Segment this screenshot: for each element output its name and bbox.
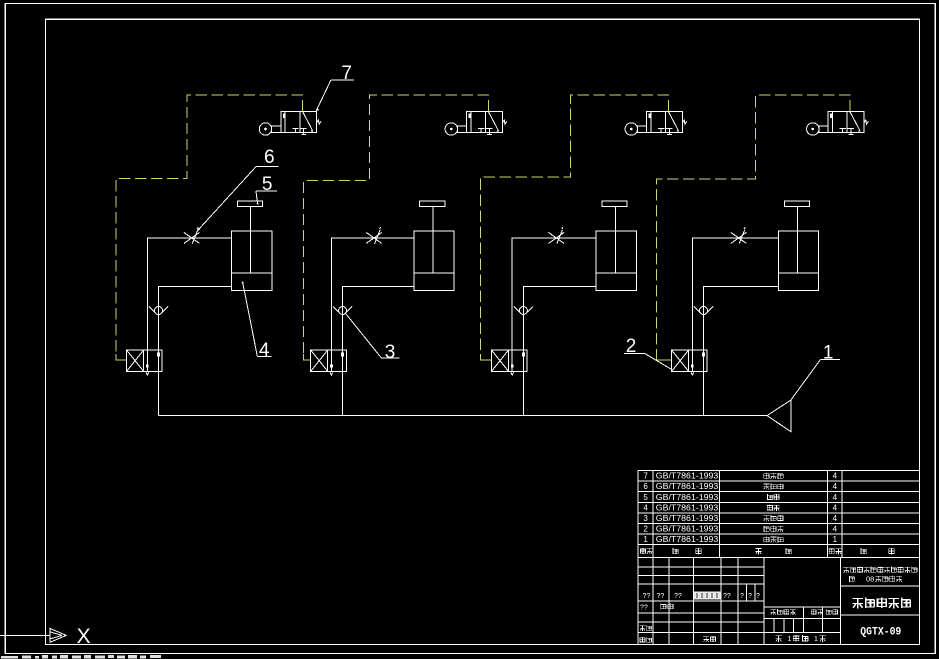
wire: valve 2.2 down to air supply manifold — [342, 371, 344, 415]
limit valve 7.2 (roller-operated 3/2) — [445, 111, 507, 135]
label 2 (directional valve callout) — [624, 336, 672, 369]
check valve 3.2 — [333, 307, 352, 315]
wire: cylinder 4 lower port to check valve 3.4 to valve 2.4 — [704, 287, 779, 351]
wire: cylinder 1 lower port to check valve 3.1 to valve 2.1 — [159, 287, 232, 351]
svg-text:5: 5 — [262, 174, 273, 195]
title block texts (left signature area) — [640, 592, 760, 643]
svg-text:6: 6 — [643, 482, 648, 491]
stop block 5.2 on piston rod — [420, 201, 445, 206]
svg-text:1: 1 — [833, 535, 838, 544]
plot stamp remnants at sheet bottom edge — [1, 655, 161, 658]
limit valve 7.4 (roller-operated 3/2) — [807, 111, 869, 135]
directional valve 2.3 (pilot operated 3/2) — [492, 350, 528, 375]
X axis datum marker — [0, 625, 91, 648]
stop block 5.4 on piston rod — [784, 201, 809, 206]
drawing title: pneumatic schematic (5 chars) — [852, 597, 910, 608]
label 3 (check valve callout) — [346, 314, 400, 363]
svg-text:GB/T7861-1993: GB/T7861-1993 — [656, 535, 719, 544]
svg-text:1: 1 — [823, 342, 834, 363]
svg-text:??: ?? — [640, 605, 648, 612]
svg-text:GB/T7861-1993: GB/T7861-1993 — [656, 482, 719, 491]
svg-text:1: 1 — [643, 535, 648, 544]
parts list header row — [640, 548, 894, 555]
directional valve 2.4 (pilot operated 3/2) — [672, 350, 708, 375]
pilot line from limit valve 7.2 to valve 2.2 (dashed) — [304, 95, 489, 360]
wire: valve 2.3 supply port up to throttle and cylinder 3 upper port — [512, 238, 596, 350]
svg-text:7: 7 — [643, 472, 648, 481]
svg-text:??: ?? — [657, 593, 665, 600]
school name: Hunan Agricultural University Oriental Science &amp; Technology College, class 08 — [843, 567, 917, 584]
svg-text:4: 4 — [833, 493, 838, 502]
check valve 3.1 — [149, 307, 168, 315]
svg-text:08: 08 — [866, 575, 874, 584]
stop block 5.1 on piston rod — [237, 201, 262, 206]
check valve 3.4 — [694, 307, 713, 315]
label 5 (stop block callout) — [256, 174, 277, 205]
wire: valve 2.4 down to air supply manifold — [703, 371, 705, 415]
svg-text:??: ?? — [674, 593, 682, 600]
limit valve 7.3 (roller-operated 3/2) — [625, 111, 687, 135]
wire: cylinder 2 lower port to check valve 3.2 to valve 2.2 — [343, 287, 414, 351]
svg-text:1: 1 — [788, 636, 792, 643]
svg-text:??: ?? — [643, 593, 651, 600]
directional valve 2.2 (pilot operated 3/2) — [311, 350, 347, 375]
svg-text:?: ? — [740, 593, 744, 600]
svg-text:5: 5 — [643, 493, 648, 502]
svg-text:??: ?? — [723, 593, 731, 600]
throttle valve 6.4 — [731, 227, 747, 244]
drawing number QGTX-09 — [860, 627, 901, 639]
svg-text:X: X — [77, 625, 91, 648]
throttle valve 6.1 — [184, 227, 200, 244]
cylinder 4.3 — [596, 207, 636, 291]
pilot line from limit valve 7.3 to valve 2.3 (dashed) — [480, 95, 668, 360]
svg-text:?: ? — [748, 593, 752, 600]
stop block 5.3 on piston rod — [602, 201, 627, 206]
wire: valve 2.2 supply port up to throttle and cylinder 2 upper port — [331, 238, 413, 350]
wire: valve 2.3 down to air supply manifold — [522, 371, 524, 415]
svg-text:?: ? — [756, 593, 760, 600]
title block grid — [638, 558, 919, 645]
svg-text:4: 4 — [833, 482, 838, 491]
svg-text:GB/T7861-1993: GB/T7861-1993 — [656, 525, 719, 534]
svg-text:GB/T7861-1993: GB/T7861-1993 — [656, 514, 719, 523]
pilot line from limit valve 7.1 to valve 2.1 (dashed) — [116, 95, 303, 360]
wire: valve 2.1 down to air supply manifold — [158, 371, 160, 415]
directional valve 2.1 (pilot operated 3/2) — [127, 350, 163, 375]
svg-text:3: 3 — [385, 342, 396, 363]
label 6 (throttle valve callout) — [197, 147, 279, 231]
pilot line from limit valve 7.4 to valve 2.4 (dashed) — [656, 95, 850, 360]
svg-text:1: 1 — [814, 636, 818, 643]
title block middle: stage mark / weight / scale / sheet count — [770, 609, 838, 643]
cylinder 4.1 — [232, 207, 272, 291]
check valve 3.3 — [514, 307, 533, 315]
wire: valve 2.1 supply port up to throttle and cylinder 1 upper port — [147, 238, 231, 350]
svg-text:GB/T7861-1993: GB/T7861-1993 — [656, 503, 719, 512]
air source 1 (supply triangle) — [767, 400, 791, 432]
svg-text:4: 4 — [643, 503, 648, 512]
svg-text:2: 2 — [643, 525, 648, 534]
label 4 (cylinder callout) — [242, 282, 272, 362]
wire: valve 2.4 supply port up to throttle and cylinder 4 upper port — [692, 238, 778, 350]
svg-text:7: 7 — [341, 63, 352, 84]
wire: main air supply manifold — [159, 415, 768, 417]
wire: cylinder 3 lower port to check valve 3.3 to valve 2.3 — [523, 287, 596, 351]
limit valve 7.1 (roller-operated 3/2) — [259, 111, 321, 135]
svg-text:QGTX-09: QGTX-09 — [860, 627, 901, 639]
cylinder 4.4 — [778, 207, 818, 291]
throttle valve 6.2 — [366, 227, 382, 244]
label 7 (limit valve callout) — [316, 63, 354, 111]
svg-text:GB/T7861-1993: GB/T7861-1993 — [656, 472, 719, 481]
cylinder 4.2 — [414, 207, 454, 291]
svg-text:4: 4 — [833, 503, 838, 512]
svg-text:4: 4 — [833, 525, 838, 534]
label 1 (air source callout) — [791, 342, 840, 400]
svg-text:4: 4 — [259, 340, 270, 361]
svg-text:4: 4 — [833, 472, 838, 481]
throttle valve 6.3 — [549, 227, 565, 244]
svg-text:6: 6 — [264, 147, 275, 168]
svg-text:GB/T7861-1993: GB/T7861-1993 — [656, 493, 719, 502]
parts list table — [638, 471, 919, 558]
svg-text:3: 3 — [643, 514, 648, 523]
parts list rows (7..1, GB/T7861-1993 codes) — [643, 472, 837, 545]
svg-text:4: 4 — [833, 514, 838, 523]
